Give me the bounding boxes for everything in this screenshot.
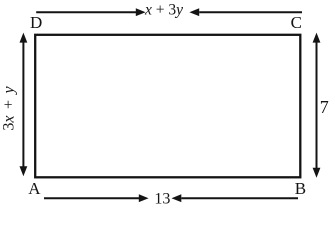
svg-text:x + 3y: x + 3y <box>144 2 183 19</box>
svg-text:C: C <box>291 13 302 32</box>
rectangle ABCD <box>35 35 300 178</box>
top dimension left arrow segment <box>36 8 145 16</box>
svg-text:13: 13 <box>154 191 170 208</box>
svg-text:D: D <box>30 13 42 32</box>
svg-text:7: 7 <box>320 97 329 117</box>
left dimension double arrow <box>20 33 28 177</box>
top dimension right arrow segment <box>189 8 302 16</box>
svg-text:A: A <box>28 179 41 198</box>
right dimension double arrow <box>313 33 321 178</box>
bottom dimension right arrow segment <box>172 194 299 202</box>
svg-text:3x + y: 3x + y <box>1 85 18 130</box>
bottom dimension left arrow segment <box>44 194 149 202</box>
svg-text:B: B <box>295 179 306 198</box>
